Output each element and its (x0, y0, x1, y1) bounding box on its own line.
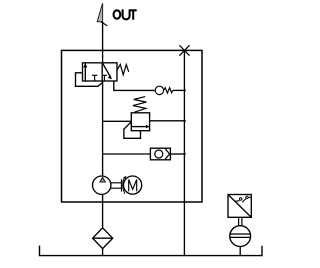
relief valve spring (133, 97, 147, 113)
OUT label letter U (123, 9, 130, 19)
wire: relief valve to drain line (150, 120, 186, 122)
switch contact lead left (234, 200, 239, 203)
gauge connection double line (239, 217, 242, 226)
coupling bar (121, 179, 123, 191)
wire: drain line from X to tank (183, 50, 185, 255)
rotation arrowhead (123, 176, 126, 180)
motor letter M (129, 180, 137, 192)
OUT label letter O (114, 10, 121, 18)
gauge chord upper (230, 233, 251, 235)
pressure switch PS1 (228, 195, 251, 218)
OUT flag tick (101, 22, 107, 26)
plugged port X (179, 45, 189, 56)
wire: check valve to drain line (173, 89, 186, 91)
switch contact circle right (246, 196, 248, 198)
filter F1 (93, 228, 113, 249)
enclosure box (62, 50, 203, 202)
tank line (40, 246, 263, 256)
pilot loop wire (76, 73, 103, 87)
motor M1 (124, 176, 142, 194)
check valve spring (164, 88, 173, 93)
wire: valve out port to check valve (114, 81, 155, 90)
pump P1 (93, 176, 111, 194)
switch contact circle left (240, 198, 242, 200)
wire: gauge to tank (239, 247, 241, 256)
check valve ball (155, 150, 163, 158)
valve divider (101, 63, 103, 81)
blocked port T1 (92, 75, 98, 81)
wire: main line valve bottom to pump (102, 81, 104, 176)
wire: main line to check valve block (103, 153, 151, 155)
relief valve pilot wire (124, 122, 141, 139)
valve diagonal flow arrow (103, 63, 111, 77)
valve body U1 (83, 63, 118, 81)
check valve ball CV1 (155, 86, 163, 94)
switch contact lead right (248, 196, 251, 198)
wire: check valve block to drain line (170, 153, 185, 155)
pump outlet triangle (100, 177, 105, 182)
OUT label letter T (130, 9, 137, 19)
OUT flag arrow (97, 3, 102, 22)
valve diagonal arrowhead (108, 75, 112, 79)
valve left arrowhead (83, 64, 87, 68)
shaft coupling lines (111, 183, 122, 188)
filter element line (93, 237, 113, 239)
relief valve body V1 (131, 113, 149, 131)
gauge chord lower (230, 236, 251, 238)
valve left position arrow (84, 63, 86, 81)
wire: pump bottom through box to filter (102, 194, 104, 227)
relief valve internal arrow (131, 126, 147, 128)
wire: main line to relief valve (103, 120, 132, 122)
rotation arc (123, 178, 125, 194)
relief valve internal arrowhead (146, 125, 150, 129)
check valve seat (165, 149, 169, 159)
pressure gauge G1 (230, 226, 251, 247)
valve spring (117, 64, 129, 74)
blocked port T2 (102, 75, 108, 81)
wire: main line flag to valve top (102, 22, 104, 63)
wire: filter to tank (102, 249, 104, 256)
switch contact blade (242, 198, 246, 202)
pressure switch diagonal (228, 195, 251, 218)
check valve block body CV2 (150, 148, 170, 160)
